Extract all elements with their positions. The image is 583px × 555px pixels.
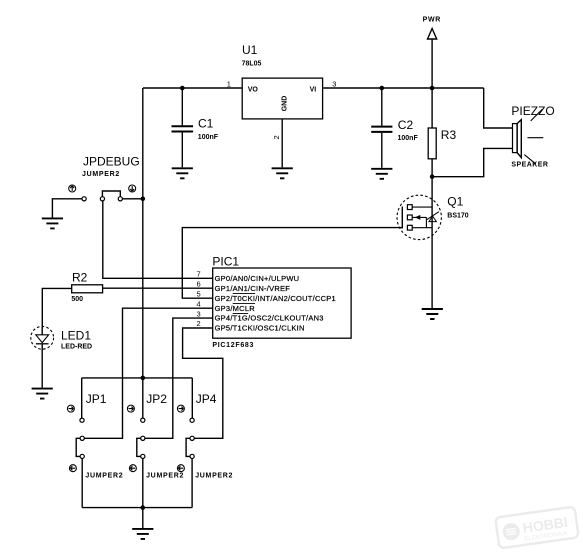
wire: left vertical from rail to bottom jumper rail: [142, 88, 144, 378]
watermark logo: [495, 507, 579, 549]
svg-text:BS170: BS170: [447, 213, 469, 220]
svg-text:GP4/T1G/OSC2/CLKOUT/AN3: GP4/T1G/OSC2/CLKOUT/AN3: [215, 314, 324, 323]
ground under C1: [172, 168, 193, 178]
gate pads: [407, 205, 412, 210]
svg-text:LED1: LED1: [61, 328, 91, 342]
bulk tap with arrow: [412, 217, 426, 227]
marker arrow down: [129, 185, 136, 192]
svg-text:LED-RED: LED-RED: [61, 343, 92, 350]
svg-text:GP3/MCLR: GP3/MCLR: [215, 304, 256, 313]
overline MCLR: [233, 303, 255, 305]
body diode: [429, 216, 437, 222]
svg-text:78L05: 78L05: [242, 61, 262, 68]
wire: left pin to ground: [52, 199, 82, 218]
ground under U1: [272, 168, 293, 178]
resistor R3: [431, 88, 433, 128]
transistor Q1 BS170: [397, 195, 441, 239]
wire: drop to JP1 top pin: [81, 378, 83, 418]
svg-text:3: 3: [197, 309, 201, 318]
wire: R2 right to PIC pin 6: [103, 287, 213, 289]
svg-text:Q1: Q1: [447, 194, 463, 208]
svg-text:JP2: JP2: [146, 392, 167, 406]
ground under Q1: [422, 309, 443, 319]
svg-text:R2: R2: [72, 270, 88, 284]
PIC1 microcontroller PIC12F683: [213, 268, 351, 338]
svg-text:GND: GND: [282, 96, 289, 112]
svg-text:6: 6: [197, 279, 201, 288]
wire: main rail left (VCC out): [143, 87, 242, 89]
wire: jumper bottom ground rail: [82, 507, 192, 509]
svg-text:JUMPER2: JUMPER2: [85, 472, 123, 479]
svg-text:JP4: JP4: [196, 392, 217, 406]
svg-text:4: 4: [197, 299, 201, 308]
svg-text:JUMPER2: JUMPER2: [146, 472, 184, 479]
wire: rail to speaker top terminal: [484, 88, 513, 128]
svg-text:500: 500: [71, 296, 83, 303]
svg-text:100nF: 100nF: [398, 135, 419, 142]
wire: PWR to rail: [431, 39, 433, 88]
svg-text:SPEAKER: SPEAKER: [511, 162, 548, 169]
ground under C2: [371, 169, 392, 179]
svg-text:GP0/AN0/CIN+/ULPWU: GP0/AN0/CIN+/ULPWU: [215, 274, 300, 283]
wire: PIC pin 4 to JP1 middle: [85, 308, 213, 438]
svg-text:U1: U1: [242, 43, 258, 57]
svg-text:C1: C1: [198, 117, 214, 131]
svg-text:JUMPER2: JUMPER2: [195, 472, 233, 479]
svg-text:GP5/T1CKI/OSC1/CLKIN: GP5/T1CKI/OSC1/CLKIN: [215, 324, 305, 333]
overline T0CKI: [233, 293, 256, 295]
capacitor C2: [381, 88, 383, 126]
svg-text:JP1: JP1: [86, 392, 107, 406]
wire: bottom rail to ground: [142, 508, 144, 528]
gate bar: [401, 207, 403, 229]
wire: U1 pin 2 to ground: [281, 119, 283, 167]
wire: R2 left to LED: [42, 288, 71, 326]
svg-text:C2: C2: [398, 118, 414, 132]
shorting bracket pins 2-3: [102, 191, 120, 197]
node: junction bottom rail: [141, 505, 146, 510]
node: junction rail/C1: [180, 86, 185, 91]
ground bottom: [132, 529, 153, 539]
svg-text:VI: VI: [310, 86, 317, 93]
svg-text:PIC12F683: PIC12F683: [212, 342, 254, 349]
svg-text:PIEZZO: PIEZZO: [511, 104, 554, 118]
LED1: [31, 326, 54, 349]
svg-text:PIC1: PIC1: [212, 254, 239, 268]
svg-text:1: 1: [227, 79, 231, 88]
capacitor C1: [181, 88, 183, 126]
node: junction JPDEBUG right: [141, 197, 146, 202]
node: junction rail/PWR/R3: [430, 86, 435, 91]
source tap: [412, 227, 432, 229]
op-amp U1 regulator 78L05: [242, 78, 322, 119]
wire: R3 bottom to speaker bottom terminal: [432, 148, 512, 176]
wire: drain through source to ground: [431, 177, 433, 309]
ground under LED1: [32, 389, 53, 399]
node: junction top rail / left vertical: [141, 376, 146, 381]
wire: JPDEBUG middle pin to PIC pin 7: [103, 201, 213, 278]
svg-text:JPDEBUG: JPDEBUG: [83, 154, 140, 168]
svg-text:3: 3: [332, 79, 336, 88]
pin circles JPDEBUG: [82, 197, 86, 201]
wire: right pin to vertical: [122, 198, 142, 200]
wire: PIC pin 3 to JP2 middle: [145, 318, 213, 438]
svg-text:VO: VO: [248, 86, 259, 93]
svg-text:JUMPER2: JUMPER2: [82, 171, 120, 178]
wire: drop to JP2 top pin: [142, 378, 144, 418]
wire: main rail right (VCC in): [323, 87, 484, 89]
drain tap: [412, 206, 432, 208]
svg-text:5: 5: [197, 289, 201, 298]
wire: drop to JP4 top pin: [191, 378, 193, 418]
svg-text:7: 7: [197, 270, 201, 279]
node: junction rail/C2: [380, 86, 385, 91]
PWR power symbol: [428, 29, 437, 40]
wire: jumper top rail: [82, 377, 193, 379]
svg-text:PWR: PWR: [423, 16, 441, 23]
svg-text:2: 2: [197, 319, 201, 328]
overline T1G: [233, 313, 248, 315]
svg-text:100nF: 100nF: [198, 134, 219, 141]
piezzo speaker SP1: [513, 124, 518, 153]
marker arrow up: [69, 185, 76, 192]
svg-text:2: 2: [272, 135, 281, 139]
svg-text:GP1/AN1/CIN-/VREF: GP1/AN1/CIN-/VREF: [215, 284, 291, 293]
ground JPDEBUG: [42, 218, 63, 228]
wire: PIC pin 2 to JP4 middle: [183, 328, 223, 438]
svg-text:R3: R3: [441, 128, 457, 142]
node: junction R3 bottom / Q1 drain / speaker: [430, 174, 435, 179]
wire: PIC pin 5 to Q1 gate: [182, 228, 402, 299]
resistor R2: [72, 285, 103, 293]
svg-text:GP2/T0CKI/INT/AN2/COUT/CCP1: GP2/T0CKI/INT/AN2/COUT/CCP1: [215, 294, 336, 303]
